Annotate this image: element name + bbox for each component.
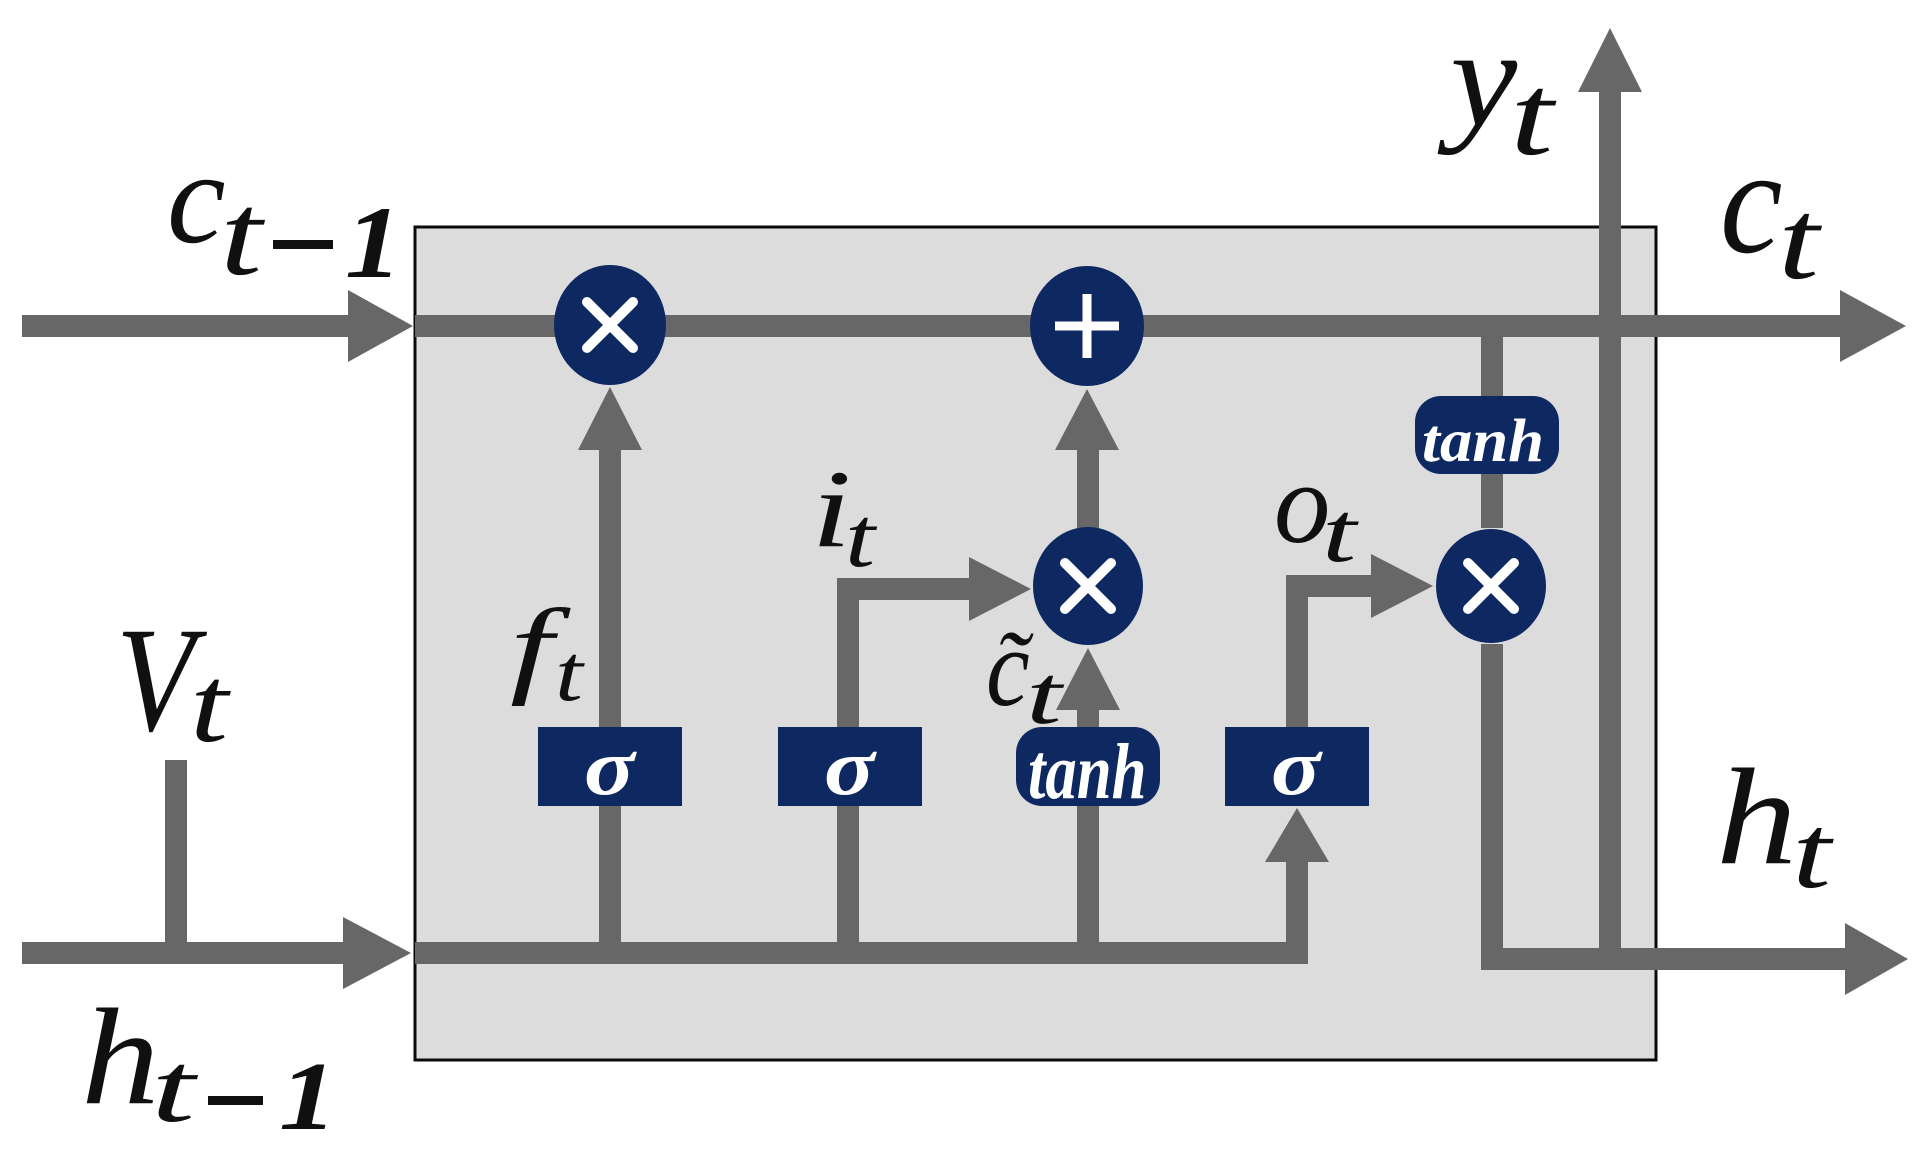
white multiply symbol 2 bbox=[1065, 563, 1111, 609]
svg-text:σ: σ bbox=[584, 723, 638, 812]
arrowhead: c-tilde into multiply bbox=[1056, 648, 1120, 710]
add node: cell state update bbox=[1030, 266, 1144, 386]
sigma gate box 2 (input gate) bbox=[778, 727, 922, 806]
label f_t bbox=[510, 587, 571, 707]
svg-text:c: c bbox=[1720, 117, 1783, 285]
wire: output-gate riser upper o_t bbox=[1286, 575, 1308, 727]
white multiply symbol 3 bbox=[1468, 563, 1514, 609]
label V_t bbox=[116, 597, 207, 763]
svg-text:t: t bbox=[151, 1032, 199, 1143]
svg-text:y: y bbox=[1437, 1, 1518, 156]
arrowhead: y_t output bbox=[1578, 28, 1642, 92]
wire: multiply output down to h line bbox=[1481, 644, 1503, 970]
wire: forget-gate riser f_t bbox=[599, 450, 621, 964]
label tanh output bbox=[1422, 407, 1544, 475]
wire: input-gate riser i_t bbox=[837, 578, 859, 964]
svg-text:tanh: tanh bbox=[1028, 728, 1147, 815]
wire: candidate riser c-tilde bbox=[1077, 710, 1099, 964]
svg-text:t: t bbox=[845, 490, 878, 585]
wire: h_{t-1}/V_t input line bbox=[22, 942, 343, 964]
sigma gate box 3 (output gate) bbox=[1225, 727, 1369, 806]
arrowhead: i_t into multiply bbox=[969, 557, 1031, 621]
label c_{t-1} minus sign bbox=[273, 240, 333, 249]
label y_t bbox=[1437, 1, 1518, 156]
wire: y_t output riser bbox=[1599, 92, 1621, 970]
svg-text:t: t bbox=[190, 644, 231, 764]
svg-text:t: t bbox=[1510, 50, 1557, 179]
multiply node: input x candidate bbox=[1033, 527, 1143, 645]
cell body box bbox=[415, 227, 1656, 1060]
svg-text:h: h bbox=[1716, 741, 1797, 894]
svg-text:t: t bbox=[220, 170, 266, 300]
svg-text:c: c bbox=[167, 124, 226, 271]
wire: cell-state line inside cell to c_t output bbox=[415, 315, 1840, 337]
wire: internal h line bbox=[415, 942, 1308, 964]
white plus symbol bbox=[1055, 294, 1119, 358]
label c_{t-1} bbox=[167, 124, 226, 271]
sigma gate box 1 (forget gate) bbox=[538, 727, 682, 806]
arrowhead: c_t output bbox=[1840, 290, 1906, 362]
arrowhead: c_{t-1} into cell bbox=[348, 290, 413, 362]
label i_t bbox=[811, 447, 851, 570]
arrowhead: f_t into multiply bbox=[578, 387, 642, 450]
label h_{t-1} bbox=[81, 980, 159, 1133]
svg-text:t: t bbox=[1792, 794, 1834, 910]
wire: multiply to add riser bbox=[1077, 450, 1099, 528]
wire: i_t horizontal to multiply bbox=[837, 578, 970, 600]
tanh box (candidate) bbox=[1016, 727, 1160, 806]
arrowhead: h_t output bbox=[1845, 923, 1908, 995]
svg-text:tanh: tanh bbox=[1422, 407, 1544, 475]
white multiply symbol 1 bbox=[587, 302, 633, 348]
label o_t bbox=[1274, 440, 1330, 567]
wire: c_{t-1} input line bbox=[22, 315, 348, 337]
svg-text:t: t bbox=[1778, 176, 1823, 303]
wire: output-gate riser lower bbox=[1286, 862, 1308, 964]
label h_{t-1} minus sign bbox=[208, 1096, 263, 1105]
svg-text:σ: σ bbox=[1271, 723, 1323, 812]
multiply node: forget bbox=[554, 265, 666, 385]
label c_t bbox=[1720, 117, 1783, 285]
svg-text:t: t bbox=[1322, 485, 1359, 580]
label h_t bbox=[1716, 741, 1797, 894]
wire: o_t horizontal to multiply bbox=[1286, 575, 1372, 597]
wire: h_t output line bbox=[1481, 948, 1845, 970]
multiply node: output bbox=[1436, 529, 1546, 643]
tanh box (output squash) bbox=[1415, 396, 1559, 474]
arrowhead: input into cell bbox=[343, 917, 411, 989]
label sigma 3 bbox=[1271, 723, 1323, 812]
label sigma 1 bbox=[584, 723, 638, 812]
svg-text:h: h bbox=[81, 980, 159, 1133]
wire: cell-state branch into tanh bbox=[1481, 326, 1503, 528]
svg-text:1: 1 bbox=[345, 185, 402, 300]
svg-text:σ: σ bbox=[824, 723, 878, 812]
arrowhead: into add node bbox=[1055, 389, 1119, 450]
svg-text:t: t bbox=[555, 629, 585, 718]
svg-text:c: c bbox=[986, 607, 1030, 730]
arrowhead: into sigma box o_t bbox=[1265, 808, 1329, 862]
arrowhead: o_t into multiply bbox=[1371, 554, 1433, 618]
label c-tilde_t bbox=[994, 611, 1034, 722]
wire: V_t stub bbox=[165, 760, 187, 964]
label tanh candidate bbox=[1028, 728, 1147, 815]
label sigma 2 bbox=[824, 723, 878, 812]
svg-text:1: 1 bbox=[279, 1044, 337, 1151]
